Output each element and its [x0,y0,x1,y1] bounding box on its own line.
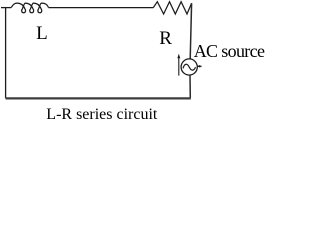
wire right upper [190,3,191,59]
wire left side [5,7,7,98]
arrow right of source [197,65,201,67]
label L [36,24,48,43]
AC source sine wave [183,64,195,70]
inductor L1 coil [11,3,48,13]
wire bottom [6,97,191,99]
current arrow (up) left of source [178,57,180,76]
wire top-left cap [1,7,11,9]
wire top middle [49,7,154,9]
AC source V1 circle [181,59,197,75]
caption L-R series circuit [46,107,157,123]
label AC source [194,42,265,60]
wire right lower [189,75,191,98]
label R [159,29,172,48]
resistor R1 zigzag [153,2,191,14]
